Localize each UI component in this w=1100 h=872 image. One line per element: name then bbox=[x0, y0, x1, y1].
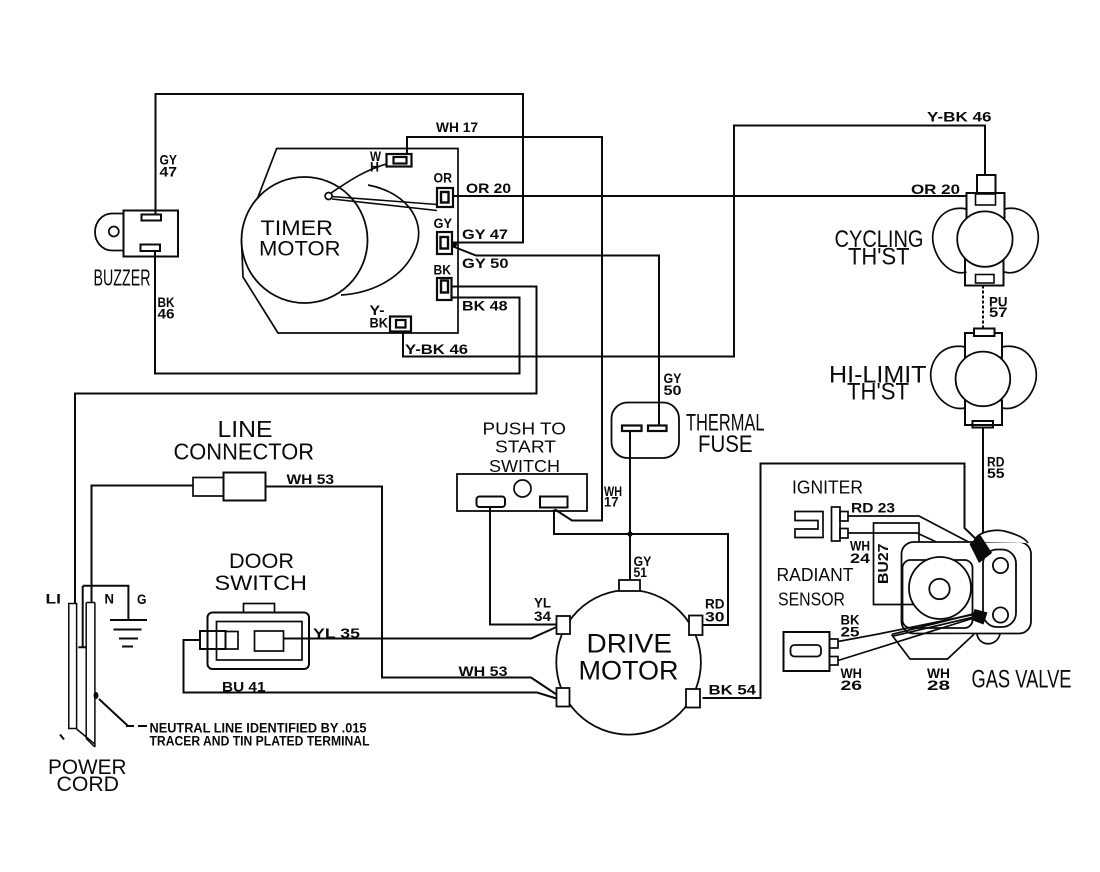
svg-text:IGNITER: IGNITER bbox=[792, 477, 863, 498]
svg-text:WH 17: WH 17 bbox=[436, 119, 478, 135]
svg-text:BK: BK bbox=[370, 315, 389, 331]
svg-text:Y-BK 46: Y-BK 46 bbox=[927, 109, 992, 125]
svg-text:GAS VALVE: GAS VALVE bbox=[972, 666, 1072, 694]
svg-text:50: 50 bbox=[664, 382, 682, 398]
svg-text:YL 35: YL 35 bbox=[313, 625, 360, 641]
svg-text:OR 20: OR 20 bbox=[911, 181, 960, 197]
svg-text:DOOR: DOOR bbox=[229, 549, 294, 573]
svg-text:34: 34 bbox=[534, 608, 551, 624]
svg-text:BUZZER: BUZZER bbox=[94, 265, 151, 291]
svg-text:BK 48: BK 48 bbox=[462, 298, 508, 314]
svg-text:RADIANT: RADIANT bbox=[777, 564, 854, 585]
svg-text:Y-BK 46: Y-BK 46 bbox=[405, 341, 468, 357]
svg-text:GY: GY bbox=[434, 215, 453, 231]
svg-text:47: 47 bbox=[160, 164, 178, 180]
svg-text:BU 41: BU 41 bbox=[222, 679, 266, 695]
svg-text:G: G bbox=[137, 591, 147, 607]
svg-text:OR 20: OR 20 bbox=[466, 180, 511, 196]
svg-text:FUSE: FUSE bbox=[698, 431, 753, 458]
svg-text:DRIVE: DRIVE bbox=[587, 629, 673, 659]
svg-text:WH 53: WH 53 bbox=[287, 471, 335, 487]
svg-text:RD 23: RD 23 bbox=[851, 500, 895, 516]
svg-text:PUSH TO: PUSH TO bbox=[483, 419, 567, 439]
svg-text:17: 17 bbox=[604, 494, 619, 510]
svg-text:26: 26 bbox=[841, 677, 863, 693]
svg-text:28: 28 bbox=[927, 677, 950, 693]
svg-text:BU27: BU27 bbox=[875, 544, 892, 585]
svg-text:H: H bbox=[370, 159, 379, 175]
svg-text:MOTOR: MOTOR bbox=[579, 656, 679, 686]
svg-text:WH 53: WH 53 bbox=[459, 663, 508, 679]
svg-text:BK 54: BK 54 bbox=[709, 682, 757, 698]
svg-text:SENSOR: SENSOR bbox=[778, 589, 845, 610]
svg-text:LI: LI bbox=[46, 591, 62, 607]
svg-text:SWITCH: SWITCH bbox=[489, 456, 560, 476]
svg-text:START: START bbox=[495, 437, 556, 457]
svg-text:TH'ST: TH'ST bbox=[847, 379, 909, 406]
svg-text:BK: BK bbox=[434, 262, 452, 278]
svg-text:55: 55 bbox=[987, 465, 1005, 481]
svg-text:TRACER AND TIN PLATED TERMINAL: TRACER AND TIN PLATED TERMINAL bbox=[150, 734, 370, 749]
svg-text:CORD: CORD bbox=[57, 773, 120, 796]
svg-text:51: 51 bbox=[634, 564, 648, 580]
svg-text:GY 50: GY 50 bbox=[462, 255, 509, 271]
svg-text:N: N bbox=[105, 591, 115, 607]
svg-text:SWITCH: SWITCH bbox=[215, 571, 308, 595]
svg-text:57: 57 bbox=[989, 304, 1008, 320]
svg-text:46: 46 bbox=[158, 306, 175, 322]
svg-text:25: 25 bbox=[841, 624, 860, 640]
svg-text:30: 30 bbox=[705, 609, 725, 625]
svg-text:GY 47: GY 47 bbox=[462, 226, 508, 242]
svg-text:TH'ST: TH'ST bbox=[848, 244, 910, 271]
svg-text:OR: OR bbox=[434, 170, 453, 186]
svg-text:CONNECTOR: CONNECTOR bbox=[174, 439, 315, 465]
svg-text:MOTOR: MOTOR bbox=[259, 237, 341, 261]
